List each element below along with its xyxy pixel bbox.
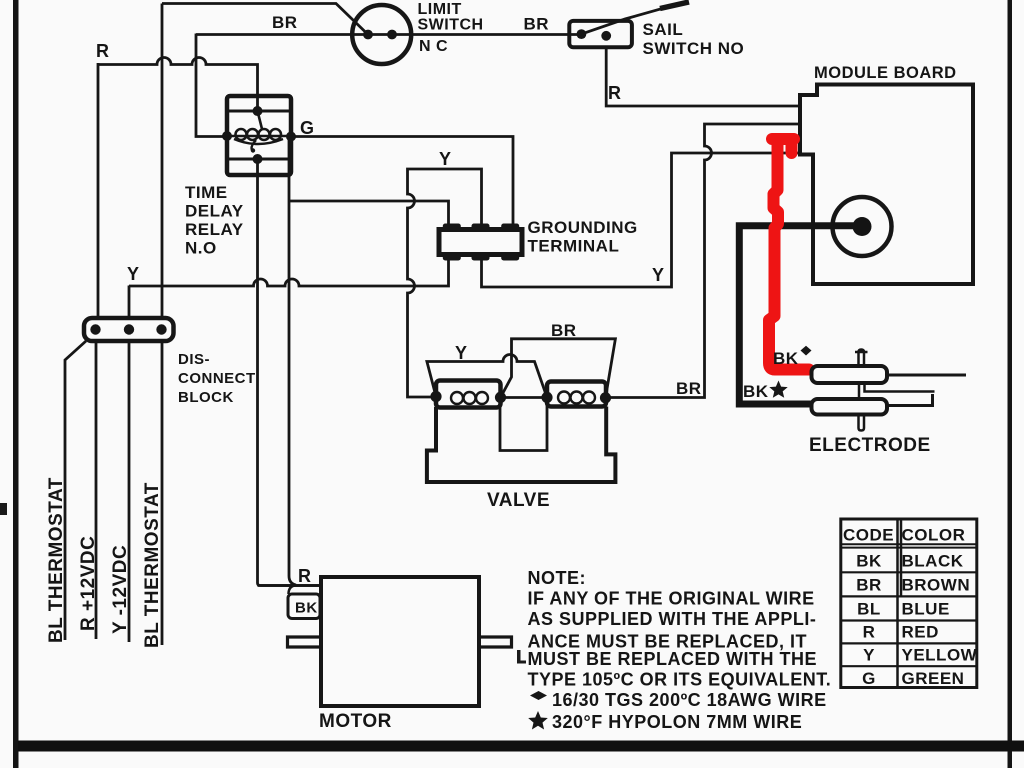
electrode E1 upper prong (812, 366, 888, 383)
wire valve Y bracket (427, 355, 547, 398)
wire BR horizontal through limit switch to sail switch (196, 33, 581, 36)
relay armature stub (258, 111, 263, 129)
svg-text:DIS-: DIS- (178, 351, 210, 368)
note star bullet (528, 711, 548, 730)
svg-text:RED: RED (902, 623, 939, 642)
limit switch LS1 circle (352, 5, 411, 64)
svg-text:320°F HYPOLON 7MM WIRE: 320°F HYPOLON 7MM WIRE (552, 712, 802, 732)
svg-text:16/30 TGS 200ºC 18AWG WIRE: 16/30 TGS 200ºC 18AWG WIRE (552, 690, 827, 710)
left border bar (13, 0, 19, 768)
table header underline double (841, 544, 977, 547)
wire Y from disconnect block with hops to grounding bottom-left (129, 258, 449, 318)
sail switch lever arm (581, 2, 684, 34)
svg-text:NOTE:: NOTE: (528, 568, 587, 588)
svg-text:MOTOR: MOTOR (319, 711, 392, 732)
disconnect block dots (90, 324, 100, 334)
svg-text:Y: Y (127, 264, 140, 284)
motor BK terminal box (288, 594, 320, 619)
star symbol (769, 381, 787, 398)
red wire stub into module board notch (786, 141, 798, 153)
svg-text:AS SUPPLIED WITH THE APPLI-: AS SUPPLIED WITH THE APPLI- (528, 609, 817, 629)
relay label (185, 183, 244, 258)
table text (843, 526, 978, 689)
svg-text:BK: BK (856, 552, 882, 571)
svg-text:CONNECT: CONNECT (178, 370, 256, 387)
svg-text:BLOCK: BLOCK (178, 389, 234, 406)
valve right coil loops (558, 392, 595, 404)
wire R vertical left (97, 63, 100, 318)
svg-text:BR: BR (272, 13, 298, 32)
wire R horizontal with hops to relay (98, 58, 258, 112)
color code table frame (841, 519, 977, 688)
sail switch dots (577, 29, 587, 39)
svg-text:BROWN: BROWN (902, 576, 971, 595)
scan speck left margin (0, 503, 7, 515)
motor right tab (479, 637, 512, 647)
wire G from relay to grounding terminal (291, 137, 513, 230)
right border bar (1008, 0, 1013, 768)
wire module entry y153 left then down (Y net) (482, 153, 801, 287)
relay coil tail hook (252, 140, 256, 151)
motor M1 body (321, 577, 479, 706)
svg-text:VALVE: VALVE (487, 490, 550, 511)
svg-text:N.O: N.O (185, 239, 217, 258)
valve left coil loops (451, 392, 488, 404)
svg-text:YELLOW: YELLOW (902, 646, 978, 665)
relay coil baseline (227, 136, 291, 144)
module board terminal dot (853, 217, 872, 236)
diamond symbol (801, 346, 812, 356)
time delay relay K1 box (227, 96, 291, 175)
wire relay right terminal down to motor R (289, 137, 296, 586)
relay inner top bar (227, 110, 291, 113)
wire valve inner U (500, 403, 547, 451)
wire thermostat leads below disconnect block (65, 341, 162, 645)
svg-text:SWITCH NO: SWITCH NO (643, 39, 745, 58)
valve outer body (427, 407, 616, 483)
wire limit-switch top horizontal + diagonal arm (162, 4, 368, 35)
relay terminal dots (253, 106, 263, 116)
svg-text:R: R (608, 83, 622, 103)
svg-text:SWITCH: SWITCH (418, 17, 484, 34)
wire valve middle link (501, 396, 548, 399)
svg-text:RELAY: RELAY (185, 220, 244, 239)
electrode lower prong (812, 399, 888, 415)
svg-text:MODULE BOARD: MODULE BOARD (814, 64, 957, 82)
svg-text:DELAY: DELAY (185, 202, 244, 221)
table column divider (898, 519, 902, 688)
electrode middle connector (859, 383, 935, 399)
svg-text:TIME: TIME (185, 183, 228, 202)
wire Y bridge over grounding terminal (408, 169, 482, 397)
svg-text:TERMINAL: TERMINAL (528, 237, 620, 256)
limit switch contact dots (363, 30, 373, 40)
wire BR vertical x196 (196, 34, 227, 137)
limit switch label (418, 1, 484, 55)
disconnect block TB1 body (84, 318, 174, 341)
wire grounding top-left bump to vertical x289 (289, 201, 449, 226)
relay inner bottom bar (227, 158, 291, 161)
bottom border bar (18, 741, 1024, 752)
grounding terminal label (528, 218, 638, 256)
thick black BK wire from module terminal to electrode (739, 226, 862, 404)
wire limit-switch net vertical x162 (161, 4, 164, 319)
thick red highlighted wire (772, 133, 794, 145)
svg-text:Y: Y (652, 265, 665, 285)
svg-text:TYPE 105ºC OR ITS EQUIVALENT.: TYPE 105ºC OR ITS EQUIVALENT. (528, 670, 832, 690)
svg-text:BR: BR (856, 576, 882, 595)
table row lines (841, 572, 977, 666)
red wire main run down to electrode (769, 139, 809, 370)
svg-text:BK: BK (295, 600, 318, 617)
svg-text:BK: BK (743, 382, 769, 401)
module board U1 outline (800, 85, 973, 285)
svg-text:IF ANY OF THE ORIGINAL WIRE: IF ANY OF THE ORIGINAL WIRE (528, 589, 815, 609)
svg-text:CODE: CODE (843, 526, 894, 545)
relay coil loops (236, 129, 282, 140)
svg-text:Y: Y (439, 149, 452, 169)
svg-text:G: G (300, 118, 315, 138)
svg-text:BL THERMOSTAT: BL THERMOSTAT (46, 477, 67, 643)
svg-text:GROUNDING: GROUNDING (528, 218, 638, 237)
svg-text:LIMIT: LIMIT (418, 1, 462, 18)
svg-text:BL THERMOSTAT: BL THERMOSTAT (142, 482, 163, 648)
svg-text:R +12VDC: R +12VDC (78, 536, 99, 631)
wire sail switch down then right to module board (606, 47, 800, 106)
wire module entry y124 down to valve right (606, 124, 801, 398)
svg-text:R: R (96, 41, 110, 61)
valve terminal dots (430, 391, 441, 402)
grounding terminal bottom bumps (443, 253, 461, 261)
disconnect block label (178, 351, 256, 406)
svg-text:SAIL: SAIL (643, 20, 684, 39)
note text block (528, 568, 832, 732)
sail switch SW1 body (569, 21, 632, 47)
svg-text:MUST BE REPLACED WITH THE: MUST BE REPLACED WITH THE (528, 649, 818, 669)
svg-text:BR: BR (524, 15, 550, 34)
valve right coil box (547, 382, 606, 407)
grounding terminal GT1 body (439, 230, 522, 255)
svg-text:R: R (863, 623, 876, 642)
svg-text:N C: N C (419, 38, 448, 55)
svg-text:BR: BR (676, 379, 702, 398)
svg-text:Y -12VDC: Y -12VDC (110, 545, 131, 634)
electrode bottom pin (859, 415, 865, 431)
scan speck near note (517, 650, 521, 663)
svg-text:BLUE: BLUE (902, 600, 950, 619)
svg-text:BR: BR (551, 321, 577, 340)
electrode upper lead wire (887, 374, 966, 377)
svg-text:G: G (862, 669, 876, 688)
motor left tab (288, 637, 322, 647)
svg-text:BLACK: BLACK (902, 552, 964, 571)
grounding terminal top bumps (443, 224, 461, 232)
module board terminal circle (833, 197, 892, 256)
svg-text:Y: Y (863, 646, 875, 665)
wire valve BR bracket (501, 339, 616, 398)
svg-text:R: R (298, 566, 312, 586)
svg-text:BL: BL (857, 600, 881, 619)
electrode lower lead wire (887, 394, 933, 406)
wire relay center down to motor (258, 159, 322, 586)
electrode top pin (855, 350, 868, 367)
svg-text:COLOR: COLOR (902, 526, 966, 545)
svg-text:Y: Y (455, 343, 468, 363)
svg-text:GREEN: GREEN (902, 669, 965, 688)
svg-text:BK: BK (773, 349, 799, 368)
svg-text:ELECTRODE: ELECTRODE (809, 435, 931, 456)
wire BK box lead curve (289, 586, 296, 595)
sail switch label (643, 20, 745, 58)
note diamond bullet (530, 691, 547, 700)
wire motor R horizontal (258, 584, 322, 587)
valve V1 left coil box (436, 381, 501, 408)
